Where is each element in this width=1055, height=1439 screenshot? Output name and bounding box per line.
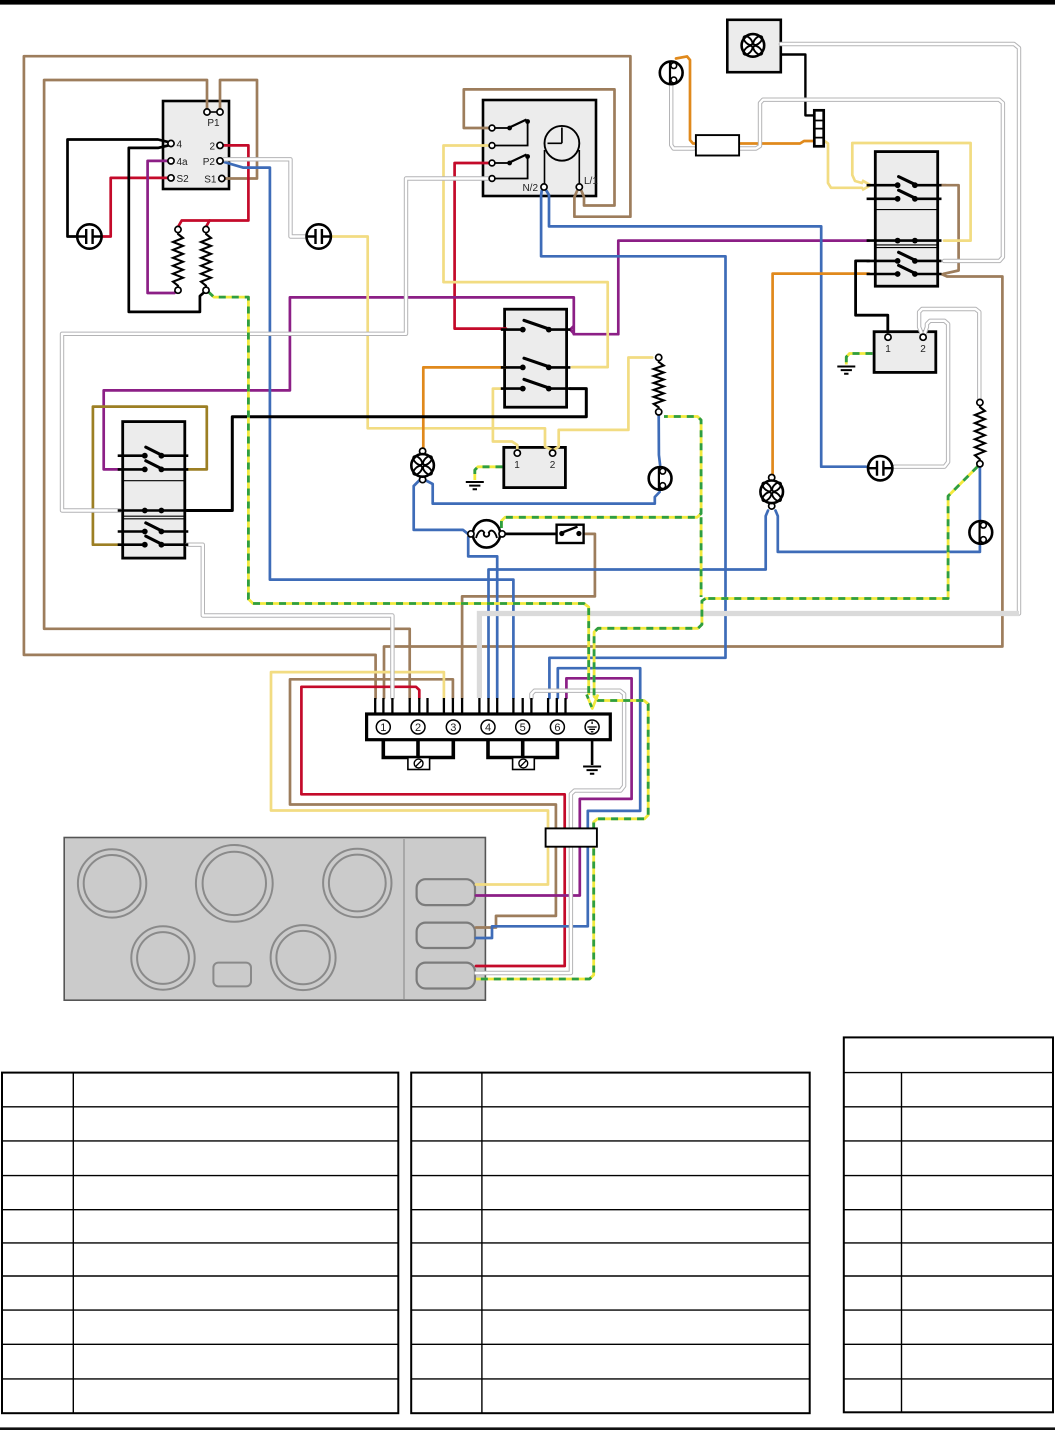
jumper link 1-2-3 [383, 740, 453, 758]
lamp right-side [969, 521, 992, 544]
wire black switchblock1 row3 to switchblock2 row3 [187, 389, 586, 511]
wire purple main: switchblock3 row3 to switchblock1 row2 [104, 241, 869, 470]
svg-text:4: 4 [177, 140, 183, 151]
switchblock2 box [505, 309, 567, 407]
regulator terminal 2 [209, 142, 223, 153]
earth wire junction to hob connector3 [476, 599, 706, 980]
wire white switchblock1 row5 to terminal-1 right pin [187, 545, 392, 698]
timer switch 1 [489, 119, 530, 148]
switchblock3 box [875, 152, 937, 287]
wire yellow thermostat t1 to switchblock2 row3 left [493, 389, 517, 449]
wire blue timer N/2 lower branch to terminal-6 left pin [541, 191, 725, 699]
wire black regulator-4 upper to lamp1 [68, 140, 170, 237]
switchblock1 row3 contact [118, 508, 189, 514]
timer switch 2 [489, 154, 530, 181]
bottom black rule [0, 1427, 1055, 1430]
wire red grill element link [178, 221, 210, 228]
wire purple tap to switchblock2 row1 right [570, 326, 574, 333]
jumper link 4-5-6 [488, 740, 557, 758]
wire purple hob connector1 to terminal-6 right pin [476, 678, 632, 895]
heating element right [201, 226, 211, 293]
earth wire oven lamp to element-mid [501, 417, 701, 529]
regulator terminal 4a [168, 157, 188, 168]
wire yellow lamp2 to thermostat t2 [331, 237, 552, 450]
switchblock2 row3 contact [501, 379, 571, 391]
earth wire element-right to junction [705, 467, 978, 599]
indicator lamp2 [307, 224, 331, 248]
oven lamp [468, 520, 505, 547]
lamp mid [649, 467, 672, 490]
hob display [213, 963, 251, 987]
switchblock1 row5 contact [118, 536, 189, 548]
thermostat-right terminal 1 [885, 334, 891, 355]
svg-text:2: 2 [920, 344, 926, 355]
earth wire element-left to terminal earth [208, 292, 589, 696]
svg-text:6: 6 [554, 722, 560, 734]
wire blue hob connector2 to terminal-6 center pin [476, 668, 640, 938]
wire brown P1-right to S1 [220, 80, 257, 179]
legend table 3 [844, 1037, 1053, 1412]
timer box [483, 100, 596, 196]
hob connector 3 [417, 963, 475, 989]
legend table 1 [2, 1073, 398, 1414]
wire red regulator S2 to lamp1 [99, 178, 173, 237]
earth arrow at terminal earth [587, 695, 598, 709]
timer terminal L/1 [576, 176, 598, 190]
svg-text:1: 1 [380, 722, 386, 734]
hob connector 2 [417, 923, 475, 948]
svg-text:N/2: N/2 [522, 183, 538, 194]
appliance connector box [546, 828, 597, 846]
terminal 4 [481, 720, 495, 734]
svg-text:4a: 4a [177, 157, 189, 168]
wire white lamp-top to choke [671, 85, 694, 149]
terminal block body [367, 714, 611, 740]
wire black switchblock3 row4 to thermostat-right t1 [856, 261, 888, 332]
wire brown switchblock3 row1-right short [942, 184, 947, 187]
heating element left [173, 226, 183, 293]
wire white timer T4 to switchblock1 row3 [62, 179, 490, 511]
switchblock1 box [123, 422, 185, 558]
wire orange choke to strip [739, 141, 814, 144]
energy regulator box [163, 101, 229, 189]
fan box [727, 20, 781, 72]
svg-text:3: 3 [450, 722, 456, 734]
thermostat-mid terminal 2 [550, 450, 556, 471]
switchblock2 row2 contact [501, 358, 571, 370]
wire brown border loop: timer L/1 to terminal-1 left pin [24, 56, 631, 698]
wire purple regulator 4a to element left [148, 161, 178, 293]
hob zone 3 [323, 849, 391, 917]
wire white terminal-5 right pin to hob connector3 [476, 691, 624, 973]
wire white thermostat-right t2 to lamp3 [895, 321, 949, 467]
svg-text:2: 2 [415, 722, 421, 734]
switchblock2 row1 contact [501, 320, 571, 332]
wire orange switchblock2 row2 to fan-mid [423, 367, 506, 449]
hob zone 4 [131, 926, 194, 989]
wire blue element-mid to lamp-mid [659, 415, 660, 465]
switchblock3 dividers [875, 210, 937, 248]
terminal 1 [376, 720, 390, 734]
hob connector 1 [417, 879, 475, 905]
svg-text:2: 2 [209, 142, 215, 153]
switchblock3 row2 contact [867, 190, 942, 202]
wire red hob connector3 to terminal-2 center pin [301, 687, 564, 966]
wire red regulator-2 to grill elements [206, 145, 248, 227]
wire white fan box loop to hob band [781, 44, 1019, 614]
lamp top-right [660, 61, 683, 84]
wire blue timer N/2 upper branch to lamp3 [546, 191, 866, 467]
fan motor mid [411, 448, 434, 483]
svg-text:1: 1 [885, 344, 891, 355]
hob zone 5 [271, 925, 336, 990]
wire blue element-right to lamp-right [979, 466, 982, 520]
terminal earth ground lead [591, 740, 594, 765]
wire white band to terminal-4 left pin [479, 614, 1019, 699]
wire black oven lamp to door switch [505, 533, 558, 536]
wire brown timer L/1 to timer T1 [464, 89, 615, 205]
wire white choke to switchblock3 row4 right [739, 100, 1003, 261]
regulator terminal 4 [168, 140, 183, 151]
hob zone 2 [196, 845, 273, 922]
thermostat-mid box [504, 447, 566, 487]
switchblock3 row3 contact [867, 238, 942, 244]
wire white thermostat-right t2 loop to element-right [919, 309, 979, 399]
terminal earth [585, 720, 599, 734]
wire yellow hob connector1 to terminal-3 left pin [271, 672, 548, 884]
regulator terminal S2 [168, 174, 189, 185]
heating element mid [654, 354, 664, 415]
thermostat-mid terminal 1 [514, 450, 520, 471]
wire yellow loop switchblock3 row1 to row3 right [852, 143, 970, 241]
choke box [696, 135, 739, 155]
switchblock1 row4 contact [118, 523, 189, 534]
wire black regulator-4 lower to element right [129, 145, 205, 312]
terminal 2 [411, 720, 425, 734]
svg-text:P2: P2 [203, 157, 216, 168]
wire yellow arrow into switchblock3 row1 [862, 180, 871, 190]
regulator terminal S1 [204, 175, 225, 186]
switchblock3 row1 contact [867, 177, 942, 189]
wire blue fan-right to terminal-4 center pin [489, 511, 769, 699]
wire white P2 to lamp2 [224, 159, 305, 236]
terminal 5 [516, 720, 530, 734]
wire orange lamp-top to choke [676, 56, 697, 143]
fan box fan symbol [742, 34, 765, 57]
connector strip [814, 110, 823, 146]
wire blue fan-mid to oven lamp [414, 481, 468, 534]
wire blue oven lamp to terminal-4 right pin [468, 537, 497, 698]
hob divider [403, 839, 405, 999]
indicator lamp3 [868, 456, 892, 480]
terminal 6 [550, 720, 564, 734]
svg-text:P1: P1 [207, 118, 220, 129]
terminal 3 [446, 720, 460, 734]
ground symbol terminal [583, 767, 601, 774]
svg-text:1: 1 [514, 460, 520, 471]
svg-text:4: 4 [485, 722, 491, 734]
regulator P1 terminals [204, 109, 223, 129]
ground symbol mid [466, 482, 484, 489]
wire brown switchblock3 row5 to terminal-1 center pin [384, 274, 1002, 698]
hob outline [64, 838, 485, 1001]
svg-text:2: 2 [550, 460, 556, 471]
wire olive switchblock1 row2-right to row5-left [93, 407, 207, 545]
switchblock1 dividers [123, 481, 185, 519]
wire blue fan-right to lamp-right [776, 511, 980, 552]
wire yellow thermostat t2 to element-mid [554, 358, 652, 450]
switchblock3 row5 contact [867, 265, 942, 277]
ground symbol right [837, 367, 855, 374]
door switch [557, 525, 584, 543]
wire orange switchblock3 row5 to fan-right [773, 274, 869, 475]
switchblock1 row1 contact [118, 447, 189, 459]
indicator lamp1 [77, 224, 101, 248]
top black bar [0, 0, 1055, 5]
wire blue P2 to terminal-5 left pin [224, 162, 513, 698]
jumper screw box right [513, 758, 535, 770]
svg-text:L/1: L/1 [584, 176, 598, 187]
svg-text:S1: S1 [204, 175, 217, 186]
wire blue lamp-mid to fan-mid [426, 481, 660, 504]
hob zone 1 [78, 849, 146, 917]
timer terminal N/2 [522, 183, 547, 194]
wire brown door switch to terminal-3 right pin [462, 534, 595, 698]
thermostat-right terminal 2 [920, 334, 926, 355]
wire yellow timer T2 to switchblock2 row2 right [444, 146, 608, 368]
heating element right-side [975, 399, 985, 467]
timer clock [545, 126, 580, 184]
wire black fan box to strip [781, 55, 815, 116]
regulator terminal P2 [203, 157, 223, 168]
wire brown switchblock3 row1 to row5 [942, 185, 959, 274]
switchblock3 row4 contact [867, 252, 942, 263]
legend table 2 [411, 1073, 810, 1414]
wire yellow strip to switchblock3 row1 [824, 141, 862, 188]
switchblock1 row2 contact [118, 461, 189, 473]
fan motor right [760, 475, 783, 510]
terminal block pins [375, 698, 565, 714]
thermostat-right box [874, 332, 936, 373]
svg-text:5: 5 [520, 722, 526, 734]
earth wire thermostat-mid to ground [475, 467, 503, 480]
svg-text:S2: S2 [177, 174, 190, 185]
wire brown P1-left to terminal-2 left pin [44, 80, 410, 698]
jumper screw box left [408, 758, 430, 770]
earth wire thermostat-right to ground [846, 354, 872, 365]
wire red timer T3 to switchblock2 row1 [455, 163, 506, 329]
earth wire junction vertical [700, 517, 703, 597]
wire brown hob connector2 to terminal-3 center pin [290, 679, 556, 927]
